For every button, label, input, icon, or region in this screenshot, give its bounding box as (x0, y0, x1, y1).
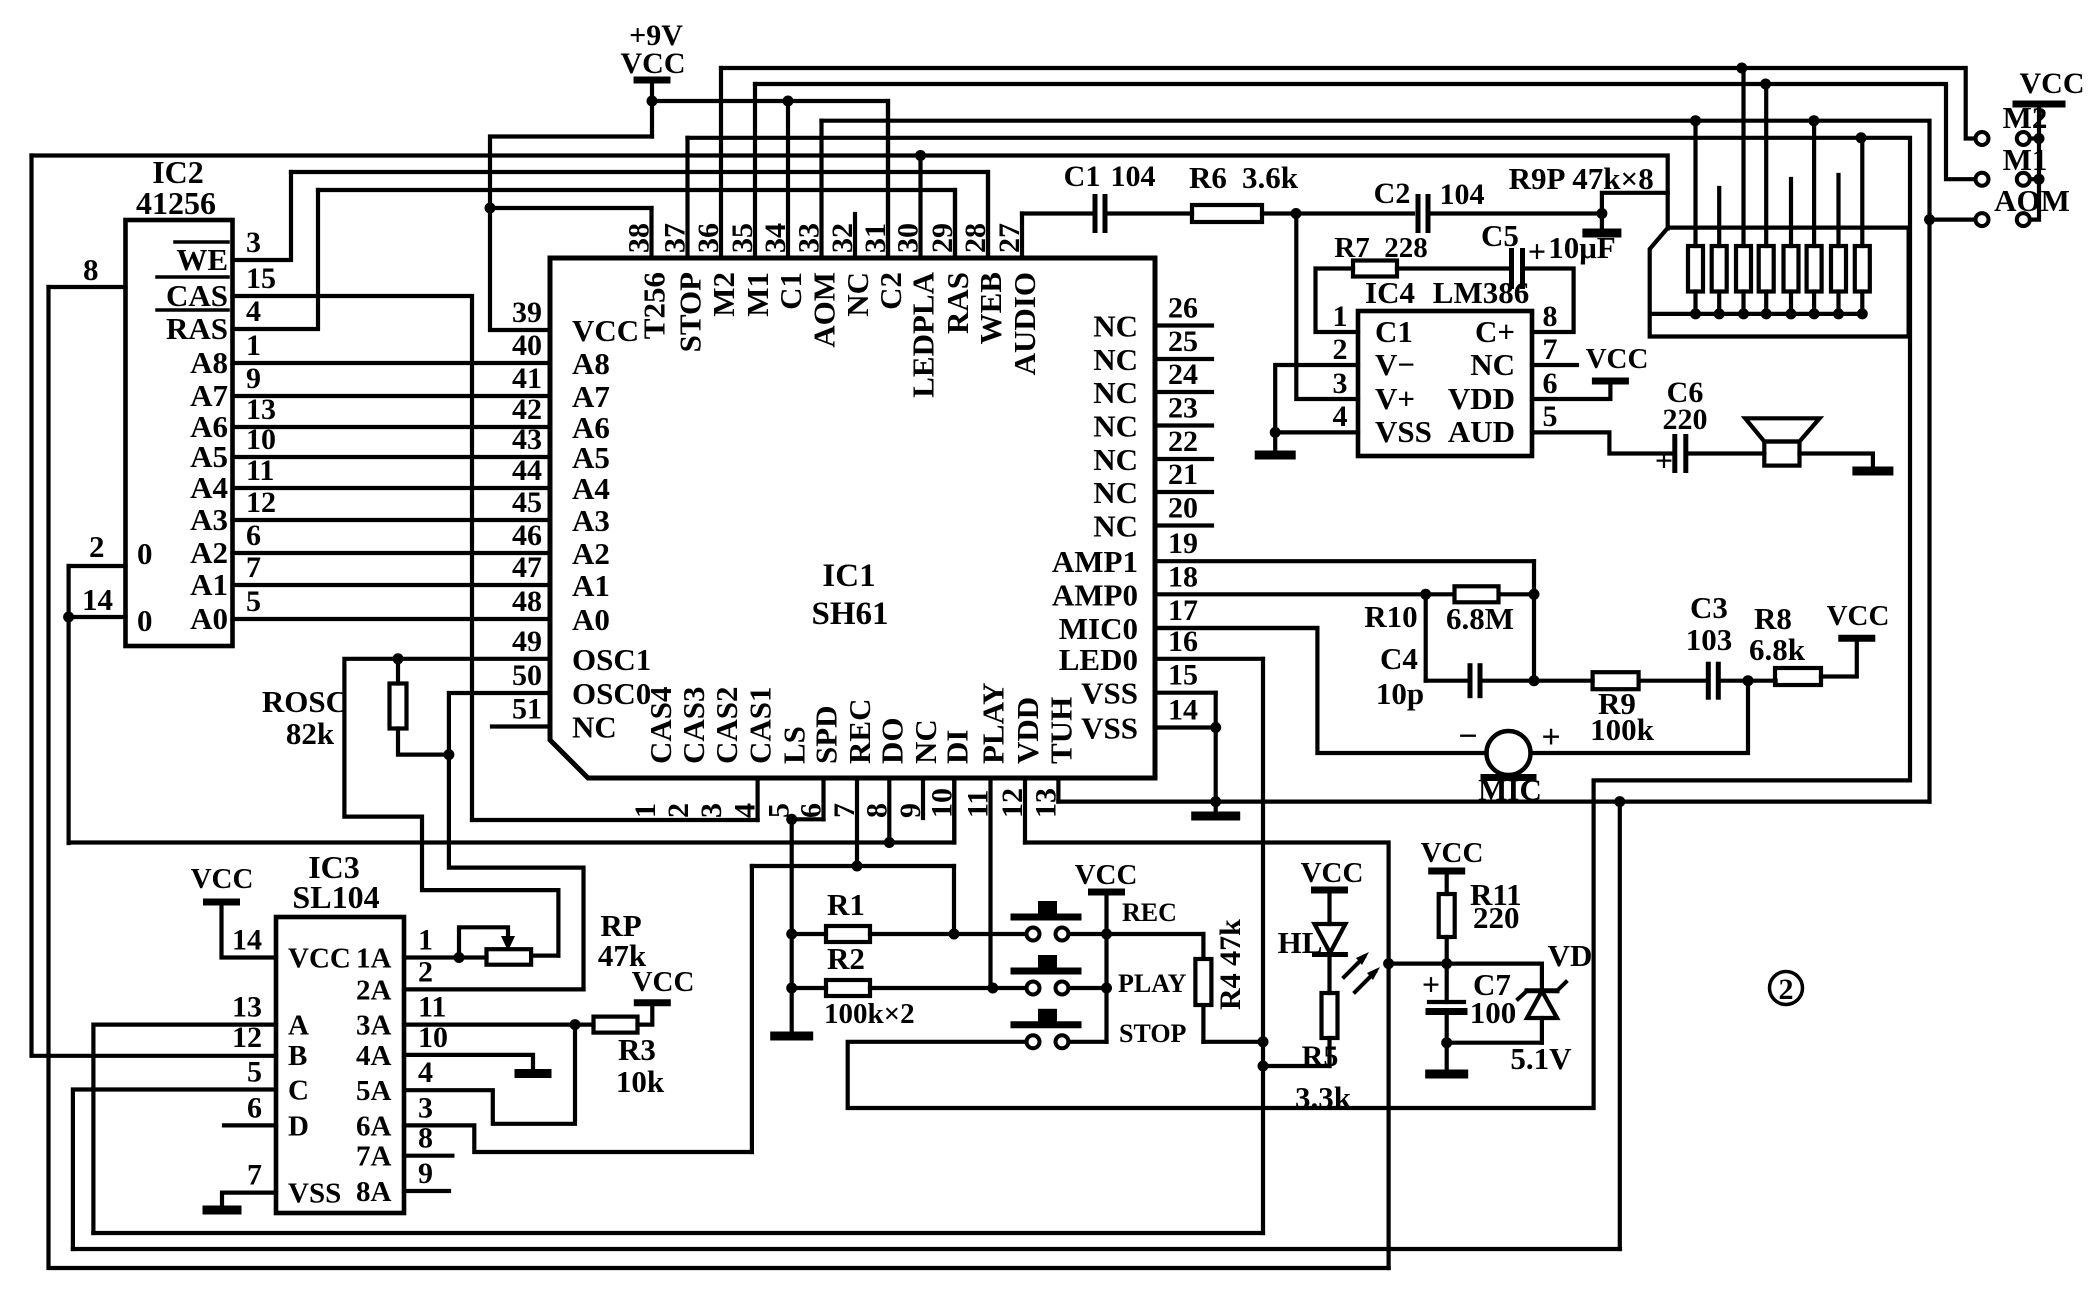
IC1 pin 20 (NC) wire (1155, 523, 1212, 527)
svg-text:6A: 6A (356, 1110, 392, 1142)
capacitor C3 103 (1706, 664, 1711, 697)
IC1 pin 7 (REC) stub (855, 778, 859, 866)
svg-text:4A: 4A (356, 1040, 392, 1072)
wire IC2 CAS pin15 down to CAS1 (233, 296, 473, 820)
svg-text:2: 2 (662, 803, 695, 818)
svg-text:2: 2 (1333, 333, 1348, 366)
svg-text:M2: M2 (2003, 100, 2048, 135)
svg-text:A0: A0 (190, 601, 228, 636)
svg-text:+: + (1541, 719, 1560, 756)
node R3 M2 dot (1736, 63, 1747, 74)
wire A7 IC2 to IC1 (233, 394, 551, 398)
svg-text:LM386: LM386 (1433, 275, 1529, 310)
svg-text:R3: R3 (618, 1032, 656, 1067)
wire R9 to C3 (1639, 679, 1709, 683)
svg-text:40: 40 (512, 329, 542, 362)
svg-text:32: 32 (826, 223, 859, 253)
svg-text:NC: NC (1093, 309, 1138, 344)
svg-text:CAS2: CAS2 (709, 686, 744, 764)
svg-text:ROSC: ROSC (262, 684, 348, 719)
wire C4 to R9 (1480, 679, 1593, 683)
node VCC junction dot (647, 96, 658, 107)
svg-text:SL104: SL104 (292, 879, 379, 915)
wire C2 node up to chamfer (1602, 193, 1668, 214)
resistor R8 6.8k (1775, 668, 1821, 685)
wire IC4 pin2 Vminus (1275, 365, 1358, 432)
svg-text:NC: NC (572, 710, 617, 745)
resistor R5 3.3k (1322, 993, 1338, 1038)
wire IC3 D stub (224, 1123, 276, 1127)
IC2 41256 body outline (126, 220, 233, 646)
resistor R1 100k (826, 926, 870, 942)
switch AOM contacts (1976, 213, 1989, 226)
wire CAS1 under chip (472, 818, 758, 822)
svg-text:11: 11 (962, 790, 995, 818)
svg-text:AMP1: AMP1 (1052, 544, 1138, 579)
wire REC right to R4 (1069, 932, 1204, 936)
wire STOP line from pin37 (688, 138, 1911, 1108)
wire VCC down from bar (650, 80, 654, 137)
node R5 bottom dot (1258, 1061, 1269, 1072)
wire OSC1 staircase to RP (344, 659, 558, 956)
wire IC3 7A stub (404, 1154, 452, 1158)
svg-text:VCC: VCC (1421, 837, 1484, 869)
svg-text:24: 24 (1168, 358, 1198, 391)
wire WE-WEB line (291, 172, 988, 258)
svg-text:50: 50 (512, 659, 542, 692)
svg-text:30: 30 (892, 223, 925, 253)
svg-text:VCC: VCC (191, 863, 254, 895)
IC1 pin 35 (M1) stub (753, 84, 757, 258)
svg-text:C: C (288, 1075, 309, 1107)
svg-text:8A: 8A (356, 1176, 392, 1208)
resistor network R9P box (1650, 228, 1909, 337)
node R3 dot (570, 1019, 581, 1030)
svg-text:6.8M: 6.8M (1446, 601, 1514, 636)
svg-text:14: 14 (232, 924, 262, 957)
svg-text:1: 1 (629, 803, 662, 818)
wire IC4 pin5 AUD out (1532, 432, 1671, 453)
node IC4 ground dot (1270, 427, 1281, 438)
wire A5 IC2 to IC1 (233, 455, 551, 459)
svg-text:NC: NC (1093, 442, 1138, 477)
wire A8 IC2 to IC1 (233, 361, 551, 365)
svg-text:VDD: VDD (1010, 697, 1045, 764)
node TUH ground dot (1210, 796, 1221, 807)
wire R2 to PLAY switch (993, 986, 1027, 990)
svg-text:39: 39 (512, 296, 542, 329)
svg-text:7: 7 (247, 1159, 262, 1192)
wire IC2 pin2 from left (69, 564, 126, 568)
svg-text:7: 7 (1543, 333, 1558, 366)
wire C4 row (1426, 679, 1470, 683)
svg-text:3.6k: 3.6k (1242, 160, 1299, 195)
svg-text:LS: LS (777, 726, 812, 764)
svg-text:36: 36 (692, 223, 725, 253)
svg-text:7A: 7A (356, 1141, 392, 1173)
svg-text:+: + (1528, 233, 1546, 269)
svg-text:PLAY: PLAY (976, 682, 1011, 764)
node VDD regulator dot (1383, 958, 1394, 969)
svg-text:VDD: VDD (1448, 381, 1515, 416)
wire IC2 RAS pin4 up to RAS line (233, 190, 319, 329)
svg-text:AOM: AOM (1994, 183, 2070, 218)
resistor R9 100k (1593, 672, 1639, 689)
wire IC4 pin6 VDD to VCC (1532, 381, 1610, 399)
wire R1 leads (792, 932, 826, 936)
wire R9P element 3 top lead (1741, 68, 1745, 246)
svg-text:B: B (288, 1040, 307, 1072)
IC1 pin 32 (NC) stub (853, 214, 857, 258)
LED HL (1315, 924, 1346, 953)
IC1 pin 17 (MIC0) wire (1155, 626, 1317, 630)
IC1 pin 12 (VDD) stub (1023, 778, 1027, 843)
zener diode VD 5.1V (1527, 991, 1557, 1018)
wire R5 bottom row (1263, 1064, 1330, 1068)
wire R10 leads (1426, 592, 1455, 596)
svg-text:25: 25 (1168, 325, 1198, 358)
wire C1 to R6 (1105, 211, 1192, 215)
svg-text:3: 3 (418, 1091, 433, 1124)
resistor R9P element 7 (1831, 246, 1846, 292)
node ROSC top dot (393, 653, 404, 664)
pushbutton STOP (1027, 1035, 1040, 1048)
svg-text:15: 15 (1168, 659, 1198, 692)
svg-text:37: 37 (659, 223, 692, 253)
switch M2 contacts (1976, 132, 1989, 145)
IC1 pin 37 (STOP) stub (685, 138, 689, 258)
wire AMP1 down (1532, 561, 1536, 681)
IC1 pin 15 (VSS) wire (1155, 691, 1216, 695)
svg-text:45: 45 (512, 486, 542, 519)
svg-text:0: 0 (137, 603, 153, 638)
svg-text:STOP: STOP (1119, 1019, 1187, 1048)
resistor R9P element 8 (1855, 246, 1870, 292)
svg-text:DI: DI (939, 730, 974, 764)
svg-text:38: 38 (623, 223, 656, 253)
node IC2 pin2/14 vertical (66, 566, 70, 843)
svg-text:LED0: LED0 (1059, 642, 1138, 677)
node ROSC bottom dot (443, 749, 454, 760)
node R4 M1 dot (1760, 79, 1771, 90)
wire R9P element 6 top lead (1812, 121, 1816, 246)
wire VSS pin15 pin14 to ground (1214, 693, 1218, 812)
wire TUH line (1058, 799, 1929, 803)
wire M2 line from pin36 (721, 68, 1975, 139)
wire R11 to node (1445, 937, 1449, 1002)
wire IC3 4A to ground (404, 1055, 533, 1070)
wire left vertical pin8 to VDD rail (49, 287, 1389, 1268)
wire IC2 pin14 from left (69, 615, 126, 619)
svg-text:6: 6 (795, 803, 828, 818)
IC2 WE overline (175, 240, 228, 244)
svg-text:A0: A0 (572, 602, 610, 637)
svg-text:VCC: VCC (1075, 859, 1138, 891)
IC1 pin 9 (NC) stub (921, 778, 925, 818)
wire T256 line (490, 206, 652, 210)
svg-text:7: 7 (828, 803, 861, 818)
wire AOM line from pin33 (822, 121, 1930, 802)
VCC bar R8 (1842, 635, 1872, 642)
IC1 pin 34 (C1) stub (786, 101, 790, 258)
svg-text:CAS: CAS (166, 278, 228, 313)
svg-text:SPD: SPD (809, 705, 844, 764)
wire R9P element 4 bottom lead (1764, 292, 1768, 314)
switch M1 contacts (1976, 173, 1989, 186)
svg-text:C2: C2 (1374, 177, 1411, 210)
svg-text:12: 12 (996, 788, 1029, 818)
svg-text:22: 22 (1168, 425, 1198, 458)
node PLAY right dot (1101, 983, 1112, 994)
svg-text:VCC: VCC (1827, 600, 1890, 632)
node R2 left dot (786, 983, 797, 994)
wire AMP0 down to C4 (1424, 594, 1428, 680)
resistor R9P element 5 (1784, 246, 1799, 292)
IC1 pin 31 (C2) stub (886, 101, 890, 258)
IC1 pin 14 (VSS) wire (1155, 725, 1216, 729)
wire R9P common bus (1652, 312, 1862, 316)
node pin34 C1 dot (783, 96, 794, 107)
ground 4A (519, 1069, 547, 1078)
wire R9P element 7 bottom lead (1836, 292, 1840, 314)
wire REC pin7 bridge (752, 864, 954, 868)
ground IC3 VSS (222, 1193, 276, 1206)
svg-text:PLAY: PLAY (1118, 969, 1187, 998)
node R1 AOM dot (1690, 115, 1701, 126)
svg-text:21: 21 (1168, 458, 1198, 491)
VCC bar R3 (637, 999, 667, 1006)
svg-text:VSS: VSS (288, 1178, 341, 1210)
svg-text:RAS: RAS (940, 272, 975, 334)
svg-text:NC: NC (840, 272, 875, 317)
svg-text:3: 3 (695, 803, 728, 818)
svg-text:5: 5 (246, 585, 261, 618)
svg-text:M1: M1 (740, 272, 775, 317)
svg-text:LEDPLA: LEDPLA (906, 271, 941, 397)
wire IC4 pin7 NC stub (1532, 363, 1577, 367)
wire VDD line from pin12 (1025, 843, 1389, 1269)
IC1 pin 10 (DI) stub (952, 778, 956, 843)
wire C6 to speaker (1686, 451, 1765, 455)
IC1 pin 19 (AMP1) wire (1155, 559, 1534, 563)
svg-text:8: 8 (1543, 300, 1558, 333)
svg-text:220: 220 (1663, 403, 1708, 436)
resistor R9P element 2 (1712, 246, 1727, 292)
wire LS vertical (790, 819, 794, 1031)
svg-text:1: 1 (418, 924, 433, 957)
svg-text:HL: HL (1278, 925, 1323, 960)
svg-text:27: 27 (993, 223, 1026, 253)
IC1 pin 27 (AUDIO) stub (1020, 214, 1024, 259)
wire AUDIO pin27 to C1 (1022, 211, 1095, 215)
wire IC3 6A to REC net (404, 1125, 752, 1152)
wire R2 leads (792, 986, 826, 990)
power VCC bar top (637, 77, 667, 84)
svg-text:C+: C+ (1475, 314, 1515, 349)
svg-text:15: 15 (246, 262, 276, 295)
svg-text:IC1: IC1 (822, 558, 875, 594)
svg-text:A8: A8 (572, 346, 610, 381)
wire R9P element 1 bottom lead (1693, 292, 1697, 314)
wire LS SPD tie (792, 817, 824, 821)
resistor R9P element 1 (1688, 246, 1703, 292)
LED arrows (1344, 957, 1364, 977)
svg-text:3: 3 (1333, 367, 1348, 400)
svg-text:A5: A5 (572, 440, 610, 475)
IC1 pin 30 (LEDPLA) stub (918, 156, 922, 259)
svg-text:4: 4 (418, 1056, 433, 1089)
svg-text:V−: V− (1375, 347, 1415, 382)
wire VCC to C1 C2 pins (652, 101, 888, 258)
node RP wiper dot (454, 952, 465, 963)
svg-text:M2: M2 (706, 272, 741, 317)
svg-text:OSC1: OSC1 (572, 642, 651, 677)
svg-text:7: 7 (246, 551, 261, 584)
resistor ROSC 82k (396, 659, 400, 684)
svg-text:RAS: RAS (166, 311, 228, 346)
ground VSS (1196, 812, 1236, 821)
node REC VCC dot (1101, 929, 1112, 940)
svg-text:35: 35 (726, 223, 759, 253)
VCC bar IC3 (207, 899, 237, 906)
svg-text:6: 6 (1543, 367, 1558, 400)
pushbutton PLAY (1027, 982, 1040, 995)
svg-text:A: A (288, 1010, 309, 1042)
svg-text:C2: C2 (873, 272, 908, 310)
svg-text:2: 2 (89, 529, 105, 564)
svg-text:A3: A3 (572, 503, 610, 538)
svg-text:10p: 10p (1376, 676, 1424, 711)
wire R9P element 6 bottom lead (1812, 292, 1816, 314)
capacitor C5 10uF (1509, 251, 1514, 287)
wire VCC to switch commons (2030, 104, 2039, 220)
svg-text:82k: 82k (286, 716, 335, 751)
svg-text:1: 1 (246, 329, 261, 362)
resistor R6 3.6k (1192, 205, 1262, 222)
capacitor C4 10p (1468, 666, 1473, 696)
svg-text:NC: NC (1093, 475, 1138, 510)
resistor R9P element 3 (1736, 246, 1751, 292)
svg-text:+: + (1422, 966, 1440, 1002)
svg-text:D: D (288, 1110, 309, 1142)
svg-text:49: 49 (512, 625, 542, 658)
wire IC4 pin1 loop up (1316, 269, 1359, 333)
node C7 VD bottom dot (1441, 1037, 1452, 1048)
svg-text:5: 5 (247, 1056, 262, 1089)
svg-text:A5: A5 (190, 439, 228, 474)
svg-text:41: 41 (512, 362, 542, 395)
op-amp U-IC1 SH61 body outline (550, 258, 1155, 778)
IC1 pin 38 (T256) stub (649, 208, 653, 258)
IC1 pin 18 (AMP0) wire (1155, 592, 1426, 596)
wire R9P element 7 top lead (1836, 175, 1840, 246)
node pin7 REC dot (852, 861, 863, 872)
svg-text:AUDIO: AUDIO (1007, 272, 1042, 375)
svg-text:0: 0 (137, 536, 153, 571)
svg-text:12: 12 (246, 486, 276, 519)
svg-text:CAS1: CAS1 (743, 686, 778, 764)
svg-text:+: + (1655, 442, 1673, 478)
capacitor C6 220 (1672, 437, 1677, 471)
svg-text:VCC: VCC (572, 313, 639, 348)
resistor R9P element 6 (1807, 246, 1822, 292)
svg-text:5.1V: 5.1V (1510, 1041, 1572, 1076)
resistor R10 6.8M (1455, 586, 1499, 602)
svg-text:47: 47 (512, 551, 542, 584)
wire A6 IC2 to IC1 (233, 425, 551, 429)
svg-text:A3: A3 (190, 502, 228, 537)
svg-text:NC: NC (1093, 509, 1138, 544)
wire speaker to ground (1800, 454, 1873, 469)
resistor R7 228 (1353, 261, 1397, 277)
node TUH railC dot (1614, 796, 1625, 807)
IC1 pin 13 (TUH) stub (1056, 778, 1060, 802)
wire RP right lead (531, 953, 558, 957)
svg-text:4: 4 (729, 803, 762, 818)
wire railC vertical (1618, 802, 1622, 1249)
wire R9P element 4 top lead (1764, 84, 1768, 246)
svg-text:CAS3: CAS3 (676, 686, 711, 764)
svg-text:103: 103 (1686, 622, 1733, 657)
svg-text:C4: C4 (1380, 641, 1418, 676)
node C2 output dot (1596, 208, 1607, 219)
svg-text:C1: C1 (1375, 314, 1413, 349)
svg-text:1A: 1A (356, 943, 392, 975)
svg-text:VCC: VCC (2020, 67, 2085, 100)
wire R3 to VCC (638, 1003, 653, 1025)
svg-text:R1: R1 (827, 887, 865, 922)
wire ROSC bottom (398, 729, 449, 755)
svg-text:A1: A1 (572, 568, 610, 603)
wire R9P element 5 top lead (1789, 179, 1793, 246)
ground LS (775, 1032, 809, 1041)
IC1 pin 22 (NC) wire (1155, 457, 1212, 461)
node C4 right dot (1529, 675, 1540, 686)
svg-text:5: 5 (1543, 400, 1558, 433)
IC1 pin 24 (NC) wire (1155, 390, 1212, 394)
svg-text:5A: 5A (356, 1075, 392, 1107)
IC1 pin 29 (RAS) stub (953, 190, 957, 258)
IC1 pin 6 (SPD) stub (821, 778, 825, 819)
svg-text:VCC: VCC (621, 47, 686, 80)
IC1 pin 33 (AOM) stub (819, 121, 823, 258)
node R10 right dot (1529, 589, 1540, 600)
wire R9P element 8 top lead (1860, 138, 1864, 246)
svg-text:46: 46 (512, 519, 542, 552)
svg-text:13: 13 (232, 991, 262, 1024)
svg-text:A8: A8 (190, 345, 228, 380)
svg-text:M1: M1 (2003, 142, 2048, 177)
svg-text:14: 14 (82, 582, 113, 617)
svg-text:19: 19 (1168, 527, 1198, 560)
svg-text:33: 33 (793, 223, 826, 253)
resistor R2 100k (826, 980, 870, 996)
svg-text:100k: 100k (1590, 712, 1655, 747)
svg-text:NC: NC (1093, 375, 1138, 410)
wire C5 to IC4 pin8 (1523, 269, 1574, 333)
wire IC3 A from rail (93, 1025, 276, 1233)
wire RAS-RAS line (318, 190, 955, 258)
svg-text:100: 100 (1470, 995, 1517, 1030)
capacitor C2 104 (1416, 197, 1421, 231)
svg-text:−: − (1458, 718, 1477, 755)
svg-text:1: 1 (1333, 300, 1348, 333)
svg-text:23: 23 (1168, 392, 1198, 425)
node R1 right dot (949, 929, 960, 940)
svg-text:A7: A7 (572, 379, 610, 414)
wire IC3 C from rail (73, 1090, 276, 1250)
svg-text:R5: R5 (1302, 1040, 1339, 1073)
